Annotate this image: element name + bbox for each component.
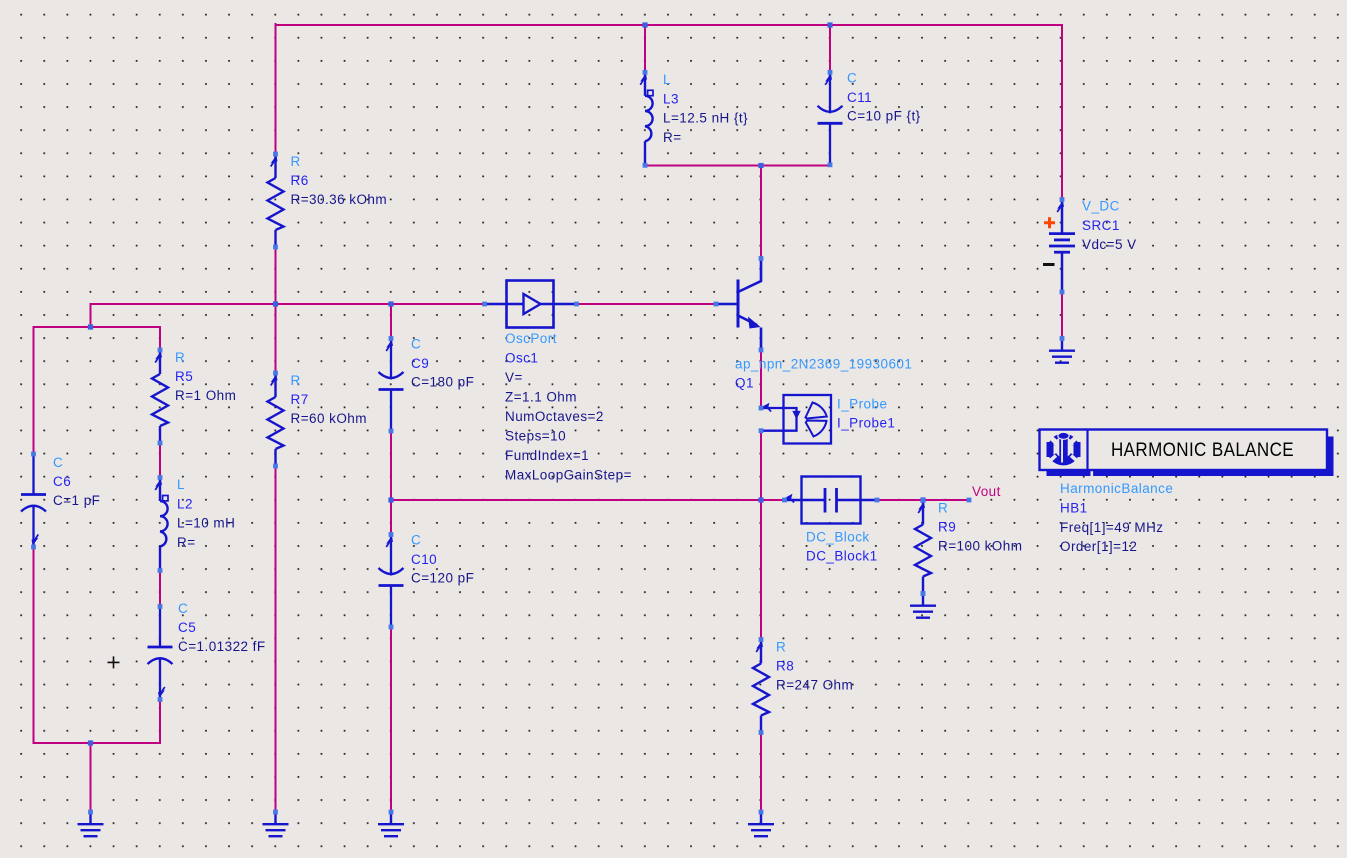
svg-text:R=60 kOhm: R=60 kOhm bbox=[291, 411, 367, 426]
node tank to collector junction bbox=[758, 163, 763, 168]
wire C5 bottom bbox=[159, 700, 161, 744]
svg-text:V_DC: V_DC bbox=[1082, 199, 1120, 214]
svg-text:R=1 Ohm: R=1 Ohm bbox=[175, 388, 236, 403]
wire OscPort to base bbox=[577, 303, 717, 305]
capacitor C10 bbox=[379, 535, 404, 628]
svg-text:Z=1.1 Ohm: Z=1.1 Ohm bbox=[505, 390, 577, 405]
svg-text:R8: R8 bbox=[776, 659, 794, 674]
svg-text:Steps=10: Steps=10 bbox=[505, 429, 566, 444]
node base bus / R6R7 junction bbox=[273, 301, 278, 306]
wire I_Probe to R8 bbox=[760, 431, 762, 640]
svg-text:L2: L2 bbox=[177, 497, 193, 512]
resistor R7 bbox=[268, 373, 284, 466]
dc source SRC1 bbox=[1049, 200, 1075, 293]
plus sign SRC1 bbox=[1044, 217, 1055, 228]
wire loop top bbox=[34, 326, 161, 328]
svg-text:R6: R6 bbox=[291, 173, 309, 188]
svg-text:C=180 pF: C=180 pF bbox=[411, 375, 474, 390]
wire loop bottom bbox=[34, 742, 161, 744]
wire R7 to ground bbox=[275, 466, 277, 812]
node C11 top junction bbox=[827, 22, 832, 27]
svg-text:C: C bbox=[53, 455, 63, 470]
wire R5-L2 bbox=[159, 443, 161, 478]
svg-text:C5: C5 bbox=[178, 620, 196, 635]
wire C9-C10 bbox=[390, 431, 392, 535]
ground SRC1 bbox=[1049, 339, 1075, 363]
simulation controller HB1 box bbox=[1047, 470, 1334, 477]
wire L3 top bbox=[644, 25, 646, 72]
node C5 anchor cross bbox=[108, 656, 120, 668]
capacitor C6 bbox=[21, 454, 46, 547]
wire C6 top bbox=[33, 327, 35, 454]
svg-text:C=10 pF {t}: C=10 pF {t} bbox=[847, 108, 921, 123]
capacitor C5 bbox=[148, 607, 173, 700]
ground R7 bbox=[263, 812, 289, 836]
svg-text:Osc1: Osc1 bbox=[505, 351, 538, 366]
icon HB gear bbox=[1047, 432, 1081, 464]
node emitter output junction bbox=[758, 497, 763, 502]
ground R9 bbox=[910, 594, 936, 618]
wire C10 to ground bbox=[390, 628, 392, 813]
svg-text:C11: C11 bbox=[847, 90, 872, 105]
svg-text:SRC1: SRC1 bbox=[1082, 218, 1120, 233]
ground R8 bbox=[748, 812, 774, 836]
svg-text:R=100 kOhm: R=100 kOhm bbox=[938, 539, 1022, 554]
svg-text:OscPort: OscPort bbox=[505, 331, 557, 346]
svg-text:Freq[1]=49 MHz: Freq[1]=49 MHz bbox=[1060, 520, 1163, 535]
inductor L2 bbox=[160, 478, 168, 571]
capacitor C9 bbox=[379, 339, 404, 432]
node C9-C10 output junction bbox=[388, 497, 393, 502]
svg-text:R: R bbox=[291, 373, 301, 388]
svg-text:R7: R7 bbox=[291, 392, 309, 407]
svg-text:HB1: HB1 bbox=[1060, 501, 1088, 516]
svg-text:DC_Block: DC_Block bbox=[806, 530, 870, 545]
wire output left bbox=[391, 499, 785, 501]
svg-text:R: R bbox=[175, 350, 185, 365]
svg-text:R5: R5 bbox=[175, 369, 193, 384]
ground C10 bbox=[378, 812, 404, 836]
wire C6 bottom bbox=[33, 547, 35, 743]
svg-text:C: C bbox=[847, 70, 857, 85]
svg-text:L3: L3 bbox=[663, 91, 679, 106]
inductor L3 bbox=[645, 72, 653, 165]
resistor R5 bbox=[152, 350, 168, 443]
current probe I_Probe1 bbox=[761, 395, 831, 444]
svg-text:R: R bbox=[291, 154, 301, 169]
wire output to Vout bbox=[877, 499, 969, 501]
wire feedback left drop bbox=[90, 304, 92, 327]
svg-text:Vout: Vout bbox=[972, 484, 1001, 499]
svg-text:C=120 pF: C=120 pF bbox=[411, 571, 474, 586]
svg-text:HARMONIC BALANCE: HARMONIC BALANCE bbox=[1111, 439, 1294, 461]
wire R7 top bbox=[275, 304, 277, 373]
wire V_DC top bbox=[1061, 25, 1063, 200]
transistor Q1 bbox=[716, 259, 761, 351]
svg-text:L=12.5 nH {t}: L=12.5 nH {t} bbox=[663, 110, 748, 125]
svg-text:R=247 Ohm: R=247 Ohm bbox=[776, 678, 853, 693]
wire top supply bus bbox=[276, 24, 1063, 26]
capacitor C11 bbox=[818, 72, 843, 165]
svg-text:C6: C6 bbox=[53, 474, 71, 489]
minus sign SRC1 bbox=[1043, 263, 1055, 266]
svg-text:C=1 pF: C=1 pF bbox=[53, 493, 100, 508]
wire V_DC to ground bbox=[1061, 292, 1063, 339]
wire emitter to I_Probe bbox=[760, 350, 762, 408]
capacitor DC_Block1 bbox=[785, 477, 878, 524]
svg-text:V=: V= bbox=[505, 370, 523, 385]
node loop bottom junction bbox=[88, 740, 93, 745]
svg-text:C10: C10 bbox=[411, 552, 437, 567]
resistor R8 bbox=[753, 640, 769, 733]
svg-text:I_Probe1: I_Probe1 bbox=[837, 416, 895, 431]
svg-text:R=30.36 kOhm: R=30.36 kOhm bbox=[291, 192, 388, 207]
wire base bus bbox=[91, 303, 486, 305]
svg-text:MaxLoopGainStep=: MaxLoopGainStep= bbox=[505, 468, 632, 483]
svg-text:R=: R= bbox=[177, 535, 196, 550]
svg-text:C: C bbox=[411, 533, 421, 548]
node feedback loop junction bbox=[88, 324, 93, 329]
wire C11 top bbox=[829, 25, 831, 72]
svg-text:R: R bbox=[776, 640, 786, 655]
wire C9 top bbox=[390, 304, 392, 339]
node base bus / C9 junction bbox=[388, 301, 393, 306]
wire R6 bottom to base bus bbox=[275, 247, 277, 305]
svg-text:R=: R= bbox=[663, 130, 682, 145]
svg-text:ap_npn_2N2369_19930601: ap_npn_2N2369_19930601 bbox=[735, 357, 912, 372]
op-amp OscPort Osc1 bbox=[485, 281, 577, 328]
wire collector bbox=[760, 166, 762, 259]
svg-text:Order[1]=12: Order[1]=12 bbox=[1060, 539, 1137, 554]
wire R8 to ground bbox=[760, 732, 762, 813]
svg-text:L: L bbox=[177, 477, 185, 492]
resistor R6 bbox=[268, 154, 284, 247]
svg-text:HarmonicBalance: HarmonicBalance bbox=[1060, 481, 1173, 496]
svg-text:C: C bbox=[411, 337, 421, 352]
svg-text:FundIndex=1: FundIndex=1 bbox=[505, 448, 589, 463]
pin squares bbox=[31, 70, 1064, 814]
svg-text:C=1.01322 fF: C=1.01322 fF bbox=[178, 639, 266, 654]
wire tank bottom bus bbox=[645, 165, 830, 167]
wire R5 top bbox=[159, 327, 161, 350]
svg-text:I_Probe: I_Probe bbox=[837, 397, 887, 412]
resistor R9 bbox=[915, 501, 931, 594]
node R9 junction bbox=[920, 497, 925, 502]
svg-text:L=10 mH: L=10 mH bbox=[177, 516, 235, 531]
svg-text:L: L bbox=[663, 72, 671, 87]
svg-text:Vdc=5 V: Vdc=5 V bbox=[1082, 237, 1137, 252]
svg-text:R: R bbox=[938, 501, 948, 516]
svg-text:C9: C9 bbox=[411, 356, 429, 371]
node L3 top junction bbox=[642, 22, 647, 27]
svg-text:NumOctaves=2: NumOctaves=2 bbox=[505, 409, 604, 424]
ground feedback loop bbox=[78, 812, 104, 836]
svg-text:R9: R9 bbox=[938, 520, 956, 535]
svg-text:DC_Block1: DC_Block1 bbox=[806, 549, 878, 564]
wire L2-C5 bbox=[159, 571, 161, 607]
svg-text:Q1: Q1 bbox=[735, 376, 754, 391]
svg-text:C: C bbox=[178, 601, 188, 616]
wire R6 top bbox=[275, 24, 277, 154]
wire R9 tap bbox=[922, 499, 924, 502]
wire loop ground drop bbox=[90, 743, 92, 812]
